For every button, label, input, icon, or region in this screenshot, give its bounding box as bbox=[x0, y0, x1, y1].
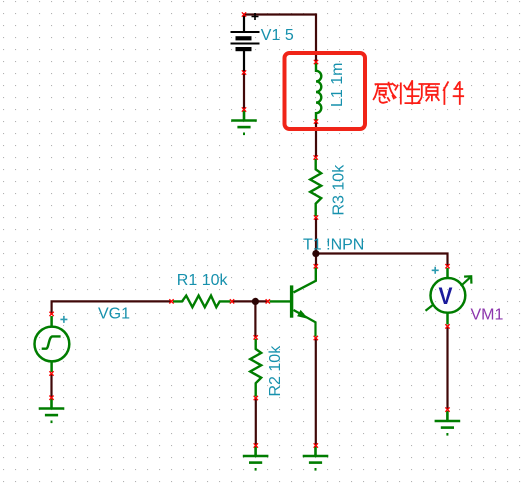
ground VG1 bbox=[39, 399, 65, 422]
wire: battery top to inductor top bbox=[244, 15, 316, 63]
inductor L1 bbox=[316, 63, 321, 121]
node R3 bottom bbox=[314, 216, 317, 219]
wire: VM1 bottom to ground bbox=[446, 326, 448, 409]
battery V1 bbox=[231, 13, 260, 72]
svg-text:L1 1m: L1 1m bbox=[329, 63, 346, 107]
wire: emitter to ground bbox=[315, 338, 317, 446]
hanzi xing 性 bbox=[395, 81, 419, 104]
wire: inductor bottom to R3 top bbox=[315, 122, 317, 158]
hanzi yuan 原 bbox=[418, 84, 439, 103]
svg-text:VG1: VG1 bbox=[98, 306, 130, 323]
node VG1 gnd bbox=[50, 396, 53, 399]
svg-text:R3 10k: R3 10k bbox=[331, 164, 348, 216]
node VM1 gnd bbox=[446, 408, 449, 411]
ground emitter bbox=[303, 446, 329, 469]
highlight box bbox=[285, 53, 366, 129]
node R2 bottom bbox=[254, 396, 257, 399]
voltmeter VM1 bbox=[426, 268, 472, 325]
hanzi jian 件 bbox=[444, 82, 464, 104]
plus VM1 bbox=[432, 267, 439, 274]
svg-text:V: V bbox=[439, 283, 453, 310]
node emitter gnd bbox=[314, 444, 317, 447]
ground battery bbox=[231, 111, 257, 134]
node emitter bbox=[314, 336, 317, 339]
plus VG1 bbox=[60, 316, 67, 323]
node L1 top bbox=[314, 60, 317, 63]
source VG1 bbox=[35, 316, 70, 372]
svg-text:R1 10k: R1 10k bbox=[177, 272, 229, 289]
svg-text:T1 !NPN: T1 !NPN bbox=[303, 237, 364, 254]
resistor R3 bbox=[310, 159, 321, 216]
node collector bbox=[314, 265, 317, 268]
resistor R2 bbox=[250, 339, 261, 397]
svg-text:VM1: VM1 bbox=[471, 307, 504, 324]
wire: R1 right to base pin bbox=[232, 300, 268, 302]
node battery bottom bbox=[242, 71, 245, 74]
annotation 感性原件 (drawn strokes) bbox=[374, 81, 464, 104]
wire: R2 bottom to ground bbox=[255, 398, 257, 446]
hanzi gan 感 bbox=[374, 83, 396, 103]
ground R2 bbox=[243, 446, 269, 469]
junction collector node bbox=[312, 250, 319, 257]
junction base node bbox=[252, 298, 259, 305]
wire: base junction down to R2 top bbox=[254, 301, 256, 337]
transistor T1 bbox=[270, 268, 316, 337]
node VG1 bottom bbox=[50, 372, 53, 375]
node R3 top bbox=[314, 156, 317, 159]
node base bbox=[266, 300, 269, 303]
wire: R3 bottom to collector node bbox=[315, 218, 317, 267]
node R1 left bbox=[170, 300, 173, 303]
svg-text:R2 10k: R2 10k bbox=[267, 345, 284, 397]
node R2 gnd bbox=[254, 444, 257, 447]
node L1 bottom bbox=[314, 120, 317, 123]
node VM1 bottom bbox=[446, 325, 449, 328]
wire: battery bottom to ground node bbox=[243, 73, 245, 110]
node battery gnd bbox=[242, 108, 245, 111]
node VG1 top bbox=[50, 312, 53, 315]
node battery top bbox=[242, 13, 245, 16]
node VM1 top bbox=[446, 265, 449, 268]
node R2 top bbox=[254, 336, 257, 339]
ground VM1 bbox=[435, 411, 461, 434]
wire: VG1 bottom to ground bbox=[50, 374, 52, 398]
wire: collector node to voltmeter top bbox=[316, 254, 448, 267]
node R1 right bbox=[230, 300, 233, 303]
svg-text:V1 5: V1 5 bbox=[261, 27, 294, 44]
wire: VG1 top to R1 left bbox=[52, 301, 172, 314]
resistor R1 bbox=[173, 296, 231, 308]
